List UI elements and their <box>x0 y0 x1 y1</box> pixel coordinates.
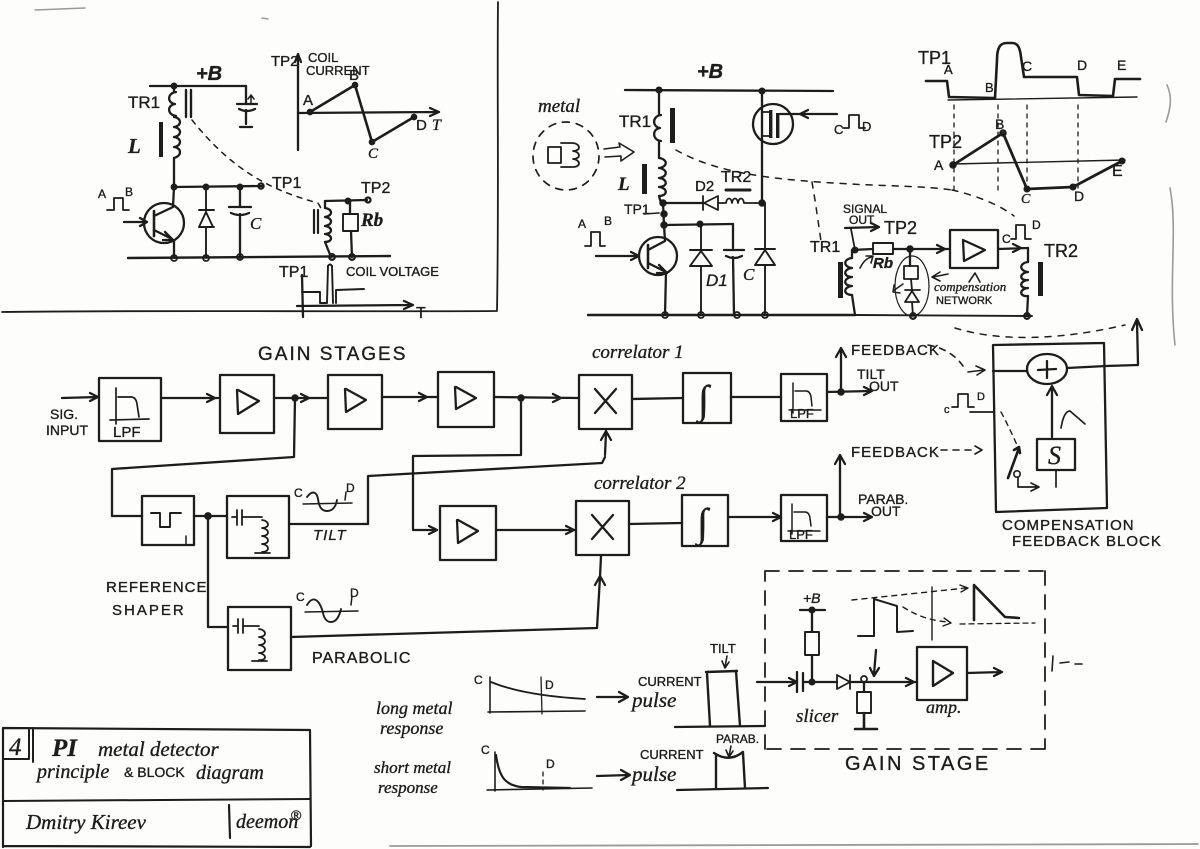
svg-text:FEEDBACK BLOCK: FEEDBACK BLOCK <box>1012 533 1162 550</box>
svg-text:response: response <box>380 718 443 738</box>
svg-text:OUT: OUT <box>849 213 875 227</box>
svg-text:D: D <box>1074 188 1084 204</box>
svg-text:TR1: TR1 <box>619 112 651 131</box>
svg-text:L: L <box>127 134 141 158</box>
svg-text:GAIN STAGES: GAIN STAGES <box>258 344 407 365</box>
svg-text:C: C <box>368 146 379 162</box>
svg-text:∫: ∫ <box>695 377 712 424</box>
svg-text:long metal: long metal <box>376 698 453 718</box>
svg-text:PARAB.: PARAB. <box>716 732 759 746</box>
svg-text:CURRENT: CURRENT <box>638 674 702 689</box>
svg-text:LPF: LPF <box>790 406 814 421</box>
svg-text:D: D <box>416 117 427 134</box>
svg-text:T: T <box>416 305 426 322</box>
svg-text:L: L <box>617 174 630 195</box>
svg-text:TP2: TP2 <box>929 132 962 152</box>
svg-text:C: C <box>743 265 755 284</box>
svg-text:C: C <box>1022 58 1032 74</box>
svg-text:metal: metal <box>538 96 580 117</box>
svg-text:principle: principle <box>35 761 109 783</box>
svg-text:TP1: TP1 <box>272 175 301 192</box>
svg-text:B: B <box>995 116 1004 132</box>
svg-text:OUT: OUT <box>869 378 899 394</box>
svg-text:COMPENSATION: COMPENSATION <box>1002 517 1135 534</box>
svg-text:+B: +B <box>196 63 222 85</box>
svg-text:SIG.: SIG. <box>50 406 78 422</box>
svg-text:C: C <box>294 486 303 500</box>
svg-text:FEEDBACK: FEEDBACK <box>851 342 940 359</box>
svg-text:slicer: slicer <box>796 706 839 727</box>
svg-text:pulse: pulse <box>630 762 676 786</box>
svg-text:metal detector: metal detector <box>98 737 220 761</box>
svg-text:A: A <box>934 157 944 173</box>
svg-text:COIL VOLTAGE: COIL VOLTAGE <box>346 264 439 279</box>
svg-text:NETWORK: NETWORK <box>936 295 993 307</box>
svg-text:Dmitry Kireev: Dmitry Kireev <box>25 810 147 834</box>
svg-text:CURRENT: CURRENT <box>640 747 704 762</box>
svg-text:TR2: TR2 <box>721 169 751 186</box>
svg-text:B: B <box>125 185 133 199</box>
svg-text:D: D <box>545 678 554 692</box>
svg-text:correlator 2: correlator 2 <box>594 473 686 494</box>
svg-text:D: D <box>346 481 355 495</box>
svg-text:OUT: OUT <box>871 503 901 519</box>
svg-text:TR2: TR2 <box>1044 241 1078 261</box>
svg-text:amp.: amp. <box>926 697 962 717</box>
svg-text:short metal: short metal <box>374 758 451 777</box>
svg-text:+B: +B <box>697 61 723 83</box>
svg-text:C: C <box>1021 192 1031 207</box>
svg-text:D: D <box>862 119 871 134</box>
svg-text:A: A <box>98 187 106 201</box>
svg-text:c: c <box>944 404 950 416</box>
svg-text:®: ® <box>291 807 302 823</box>
svg-text:response: response <box>378 778 438 797</box>
svg-text:A: A <box>578 217 586 231</box>
svg-text:Rb: Rb <box>360 210 383 231</box>
svg-text:C: C <box>1002 232 1011 246</box>
svg-text:TILT: TILT <box>710 641 736 656</box>
svg-text:TILT: TILT <box>313 527 348 544</box>
svg-text:D1: D1 <box>706 271 728 290</box>
svg-text:S: S <box>1048 441 1061 470</box>
svg-text:+B: +B <box>803 590 821 606</box>
svg-text:D: D <box>546 757 555 771</box>
svg-text:C: C <box>834 122 843 137</box>
svg-text:4: 4 <box>9 734 22 761</box>
svg-text:A: A <box>944 62 953 77</box>
svg-text:D: D <box>1077 57 1087 73</box>
svg-text:CURRENT: CURRENT <box>306 63 370 78</box>
svg-text:diagram: diagram <box>196 762 264 784</box>
svg-text:TP2: TP2 <box>884 218 917 238</box>
svg-text:E: E <box>1117 57 1126 73</box>
svg-text:B: B <box>604 214 612 228</box>
svg-text:D2: D2 <box>695 178 714 195</box>
svg-text:GAIN STAGE: GAIN STAGE <box>845 753 991 775</box>
svg-text:C: C <box>296 590 305 604</box>
svg-text:TR1: TR1 <box>128 93 160 112</box>
svg-text:REFERENCE: REFERENCE <box>106 579 208 596</box>
svg-text:LPF: LPF <box>113 424 141 441</box>
svg-text:FEEDBACK: FEEDBACK <box>851 444 940 461</box>
svg-text:SHAPER: SHAPER <box>112 602 186 619</box>
svg-text:T: T <box>432 117 442 134</box>
svg-text:A: A <box>303 92 313 109</box>
svg-text:B: B <box>349 67 359 84</box>
svg-text:& BLOCK: & BLOCK <box>124 764 185 780</box>
svg-text:C: C <box>474 673 483 687</box>
svg-text:B: B <box>985 80 994 95</box>
svg-text:∫: ∫ <box>694 500 711 547</box>
svg-text:INPUT: INPUT <box>46 422 88 438</box>
svg-text:correlator 1: correlator 1 <box>592 342 684 363</box>
svg-text:E: E <box>1112 163 1123 180</box>
svg-text:Rb: Rb <box>873 255 893 272</box>
svg-text:D: D <box>977 391 985 403</box>
svg-text:C: C <box>481 743 490 757</box>
svg-text:TR1: TR1 <box>810 239 840 256</box>
svg-text:pulse: pulse <box>630 688 676 712</box>
svg-text:LPF: LPF <box>789 527 813 542</box>
svg-text:TP1: TP1 <box>279 264 308 281</box>
svg-text:TP2: TP2 <box>361 180 390 197</box>
svg-text:deemon: deemon <box>236 811 298 833</box>
svg-text:PARABOLIC: PARABOLIC <box>312 650 411 667</box>
svg-text:C: C <box>250 214 262 233</box>
svg-text:D: D <box>1032 218 1041 232</box>
svg-text:PI: PI <box>51 735 78 762</box>
